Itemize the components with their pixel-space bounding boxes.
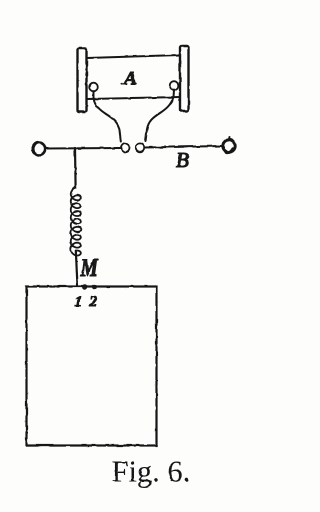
wire coil to box [76,251,78,286]
pivot circle left [89,83,98,92]
terminal blob [227,149,233,153]
wire down from B [74,148,77,188]
svg-text:Fig. 6.: Fig. 6. [112,455,191,489]
wire right lead [146,90,175,142]
svg-text:A: A [122,69,137,90]
left terminal blob [33,144,36,152]
contact dot 2 [92,284,97,289]
box bottom edge thick [26,445,157,447]
svg-text:1: 1 [75,294,83,310]
top rail [87,55,180,58]
terminal circle right [223,140,235,152]
terminal circle left [33,143,45,155]
wire left lead [94,91,121,142]
bottom rail [87,97,180,99]
svg-text:2: 2 [89,294,98,310]
wire B left segment [46,147,121,150]
terminal nub [229,138,230,141]
pivot circle right [170,81,179,90]
battery box [27,287,157,446]
wire B right segment [145,146,223,148]
svg-text:M: M [80,254,99,282]
left clamp bar [78,48,87,112]
contact circle 2 [136,143,144,151]
right clamp bar [180,46,189,111]
svg-text:B: B [176,148,189,172]
contact circle 1 [121,144,129,152]
contact dot 1 [82,284,87,289]
A flourish dot [121,83,123,85]
coil L [71,188,81,256]
